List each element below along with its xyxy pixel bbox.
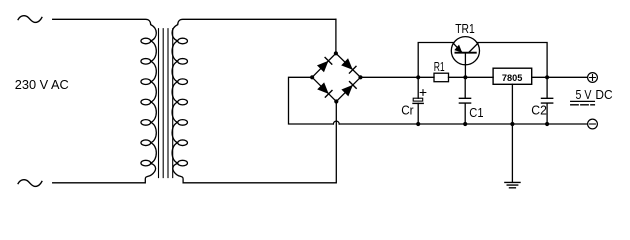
wire input rail up to TR1 emitter [418,43,454,78]
bridge node AC1 junction dot [334,51,338,55]
capacitor Cr vertical wires [417,77,419,124]
AC source tilde (bottom) [18,180,42,187]
DC symbol solid line [571,100,595,102]
transformer T1 secondary winding (with top+bottom wires) [172,19,336,183]
junction dot bottom rail [463,122,467,126]
junction dot bottom rail [510,122,514,126]
diode D2 (AC1 to plus) [342,59,352,69]
junction dot top rail [463,75,467,79]
svg-text:TR1: TR1 [455,21,475,36]
wire secondary top to bridge AC1 [335,19,337,53]
Cr polarity plus sign [420,90,426,96]
top rail: 7805 to plus terminal [532,76,588,78]
TR1 collector line [469,43,478,52]
junction dot bottom rail [416,122,420,126]
capacitor Cr plus plate (open box) [413,98,423,101]
diode D4 (AC2 to plus) [342,86,352,96]
svg-text:DC: DC [595,87,612,102]
TR1 base lead down to rail [464,53,466,78]
junction dot bottom rail [545,122,549,126]
bridge node minus junction dot [310,75,314,79]
transformer T1 primary winding (with top+bottom wires) [53,19,157,183]
TR1 base bar [455,52,475,54]
top rail: R1 to 7805 [449,76,494,78]
capacitor C1 plates [459,98,470,103]
capacitor C2 wires [546,77,548,124]
top rail: bridge plus to R1 [361,76,435,78]
svg-text:C1: C1 [469,105,483,120]
ground [505,182,520,187]
diode D3 (minus to AC2) [318,83,328,93]
transistor TR1 body circle [451,37,479,65]
bridge rectifier diamond wires [312,53,360,101]
wire TR1 collector down to output side [477,43,547,78]
TR1 emitter line with arrow (PNP, arrow into base) [453,43,462,52]
bridge node plus junction dot [358,75,362,79]
transformer core [159,29,173,178]
DC symbol dashed line [571,104,595,106]
wire bridge minus to bottom rail [289,77,334,124]
svg-text:C2: C2 [531,103,547,118]
svg-text:5 V: 5 V [576,87,592,102]
voltage regulator U1 box [493,68,532,84]
junction dot top rail [545,75,549,79]
svg-text:Cr: Cr [401,102,414,117]
wire hop over AC wire [333,121,339,124]
svg-text:7805: 7805 [502,73,523,83]
svg-text:230 V AC: 230 V AC [15,77,69,92]
output terminal plus [588,73,598,83]
bottom rail (0V) [339,123,587,125]
capacitor C2 plates [542,98,553,103]
7805 ground lead [511,84,513,182]
wire bridge AC2 to secondary bottom [335,102,337,183]
svg-text:R1: R1 [434,59,445,74]
output terminal minus [588,119,598,129]
resistor R1 box [434,73,449,82]
diode D1 (minus to AC1) [318,62,328,72]
AC source tilde (top) [18,16,42,23]
bridge node AC2 junction dot [334,99,338,103]
capacitor C1 wires [464,77,466,124]
junction dot top rail [416,75,420,79]
capacitor Cr minus plate [413,102,423,104]
